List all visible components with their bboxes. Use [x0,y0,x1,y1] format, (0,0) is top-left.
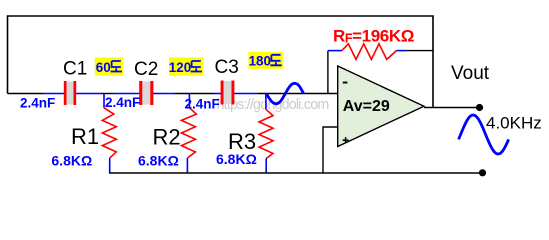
wire blue after C3 [233,93,257,95]
svg-text:2.4nF: 2.4nF [185,96,220,111]
wire blue RF left lead [328,50,342,52]
wire output [424,107,480,109]
label 2.4nF C3 [185,96,220,111]
label 2.4nF C2 [105,95,140,110]
label 2.4nF C1 [20,95,55,110]
wire blue before C1 [43,93,65,95]
resistor R1 [102,94,116,174]
label 60도 highlighted [95,57,123,75]
resistor RF [342,44,397,60]
op-amp gain label Av=29 [343,98,390,115]
label 180도 highlighted [248,52,282,69]
wire black segment C1-C2 [101,93,114,95]
wire input black segment [8,93,44,95]
wire feedback vertical from minus node [327,51,329,94]
label 6.8KΩ R3 [216,151,257,167]
wire black segment C3 to op-amp minus input [257,93,338,95]
label C3 [215,57,239,78]
svg-text:6.8KΩ: 6.8KΩ [51,153,92,169]
label Vout [451,63,490,84]
svg-text:120: 120 [169,60,191,75]
op-amp U1 [338,66,424,147]
capacitor C1 [64,81,76,105]
wire blue after C1 [76,93,101,95]
capacitor C3 [221,81,235,105]
wire feedback loop (output to RC input) [8,16,434,108]
label C2 [134,59,158,80]
svg-text:R1: R1 [71,124,99,149]
svg-text:6.8KΩ: 6.8KΩ [138,153,179,169]
wire black RF to output branch [406,50,433,52]
svg-text:C3: C3 [215,57,239,78]
svg-text:R2: R2 [153,124,181,149]
wire black segment C2-C3 [175,93,215,95]
resistor R3 [259,94,273,174]
ground/common bottom wire [109,172,483,174]
svg-text:6.8KΩ: 6.8KΩ [216,151,257,167]
wire blue after C2 [153,93,175,95]
label C1 [63,58,87,79]
svg-text:2.4nF: 2.4nF [20,95,55,110]
label R2 [153,124,181,149]
capacitor C2 [139,81,153,105]
wire blue RF right lead [397,50,407,52]
resistor R2 [181,94,196,174]
sine wave 180deg node [267,83,304,104]
svg-text:C1: C1 [63,58,87,79]
op-amp minus sign [343,82,348,84]
label 4.0KHz [486,113,542,132]
svg-text:180: 180 [249,54,271,69]
wire op-amp plus input to bottom wire [323,127,339,173]
watermark https://gongdoli.com [217,97,329,113]
node bottom dot [479,169,486,176]
label RF=196KΩ [333,27,414,46]
label 6.8KΩ R2 [138,153,179,169]
svg-text:2.4nF: 2.4nF [105,95,140,110]
node output dot [476,104,483,111]
svg-text:C2: C2 [134,59,158,80]
label 120도 highlighted [169,57,204,75]
label R1 [71,124,99,149]
svg-text:60: 60 [96,60,111,75]
svg-text:Av=29: Av=29 [343,98,390,115]
label R3 [228,129,256,154]
sine wave output 4.0KHz [459,115,509,154]
op-amp plus sign [343,137,349,143]
label 6.8KΩ R1 [51,153,92,169]
svg-text:4.0KHz: 4.0KHz [486,113,542,132]
wire blue before C2 [114,93,141,95]
svg-text:Vout: Vout [451,63,490,84]
wire blue before C3 [214,93,222,95]
